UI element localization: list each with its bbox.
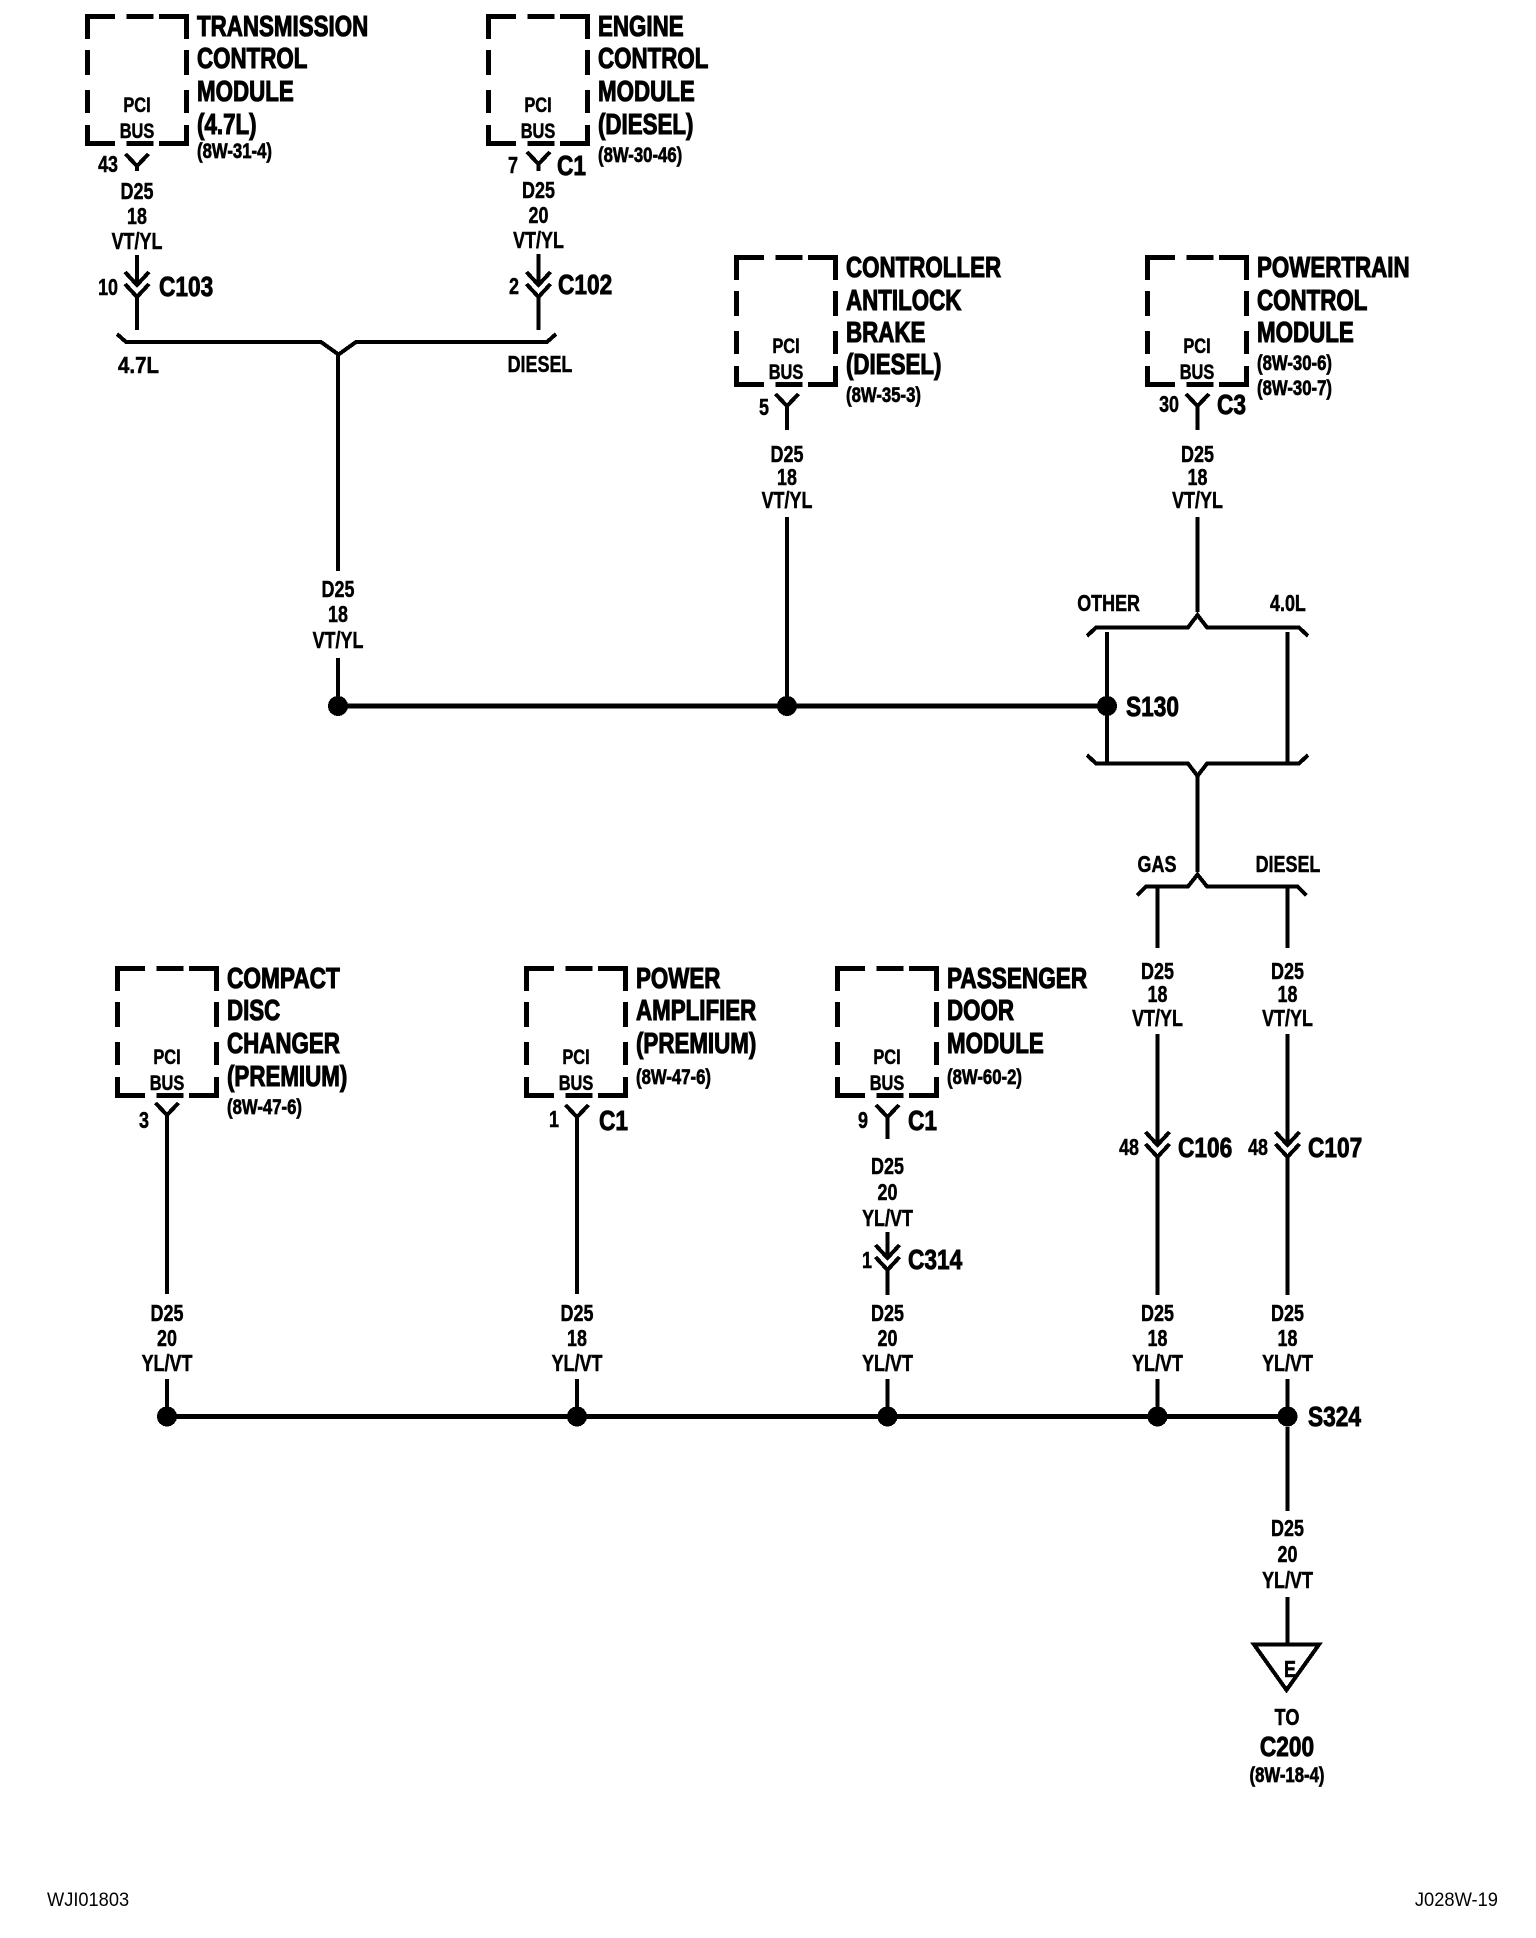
svg-text:VT/YL: VT/YL (1262, 1005, 1313, 1031)
svg-text:D25: D25 (561, 1300, 594, 1326)
svg-text:BUS: BUS (521, 120, 556, 143)
svg-text:C1: C1 (908, 1105, 937, 1136)
svg-text:C314: C314 (908, 1244, 963, 1275)
svg-text:3: 3 (139, 1107, 149, 1133)
svg-text:(PREMIUM): (PREMIUM) (636, 1028, 756, 1060)
svg-text:PCI: PCI (772, 335, 799, 358)
svg-text:C103: C103 (159, 271, 213, 302)
svg-text:COMPACT: COMPACT (227, 963, 340, 995)
svg-text:DIESEL: DIESEL (508, 351, 573, 377)
svg-text:POWERTRAIN: POWERTRAIN (1257, 252, 1410, 284)
svg-text:48: 48 (1119, 1134, 1139, 1160)
svg-text:BUS: BUS (769, 361, 804, 384)
svg-text:4.0L: 4.0L (1270, 590, 1306, 616)
svg-text:D25: D25 (322, 576, 355, 602)
svg-text:BUS: BUS (150, 1072, 185, 1095)
svg-text:(8W-47-6): (8W-47-6) (227, 1095, 302, 1119)
svg-text:CHANGER: CHANGER (227, 1028, 340, 1060)
svg-text:D25: D25 (1271, 1515, 1304, 1541)
svg-text:20: 20 (1278, 1541, 1298, 1567)
svg-text:GAS: GAS (1138, 851, 1177, 877)
svg-text:2: 2 (509, 273, 519, 299)
svg-text:1: 1 (862, 1247, 872, 1273)
svg-text:48: 48 (1248, 1134, 1268, 1160)
svg-text:10: 10 (98, 274, 118, 300)
svg-text:18: 18 (1278, 981, 1298, 1007)
svg-text:YL/VT: YL/VT (1132, 1350, 1183, 1376)
svg-text:YL/VT: YL/VT (1262, 1567, 1313, 1593)
svg-text:E: E (1284, 1656, 1296, 1682)
svg-text:CONTROL: CONTROL (598, 43, 708, 75)
svg-text:C1: C1 (557, 150, 586, 181)
svg-text:18: 18 (1148, 981, 1168, 1007)
svg-text:POWER: POWER (636, 963, 720, 995)
svg-text:ANTILOCK: ANTILOCK (846, 285, 961, 317)
svg-text:VT/YL: VT/YL (313, 627, 364, 653)
svg-text:MODULE: MODULE (1257, 317, 1354, 349)
svg-text:MODULE: MODULE (947, 1028, 1044, 1060)
svg-text:(DIESEL): (DIESEL) (598, 109, 694, 141)
svg-text:C106: C106 (1178, 1132, 1232, 1163)
svg-text:(4.7L): (4.7L) (197, 109, 257, 141)
svg-text:J028W-19: J028W-19 (1415, 1890, 1498, 1911)
svg-text:YL/VT: YL/VT (552, 1350, 603, 1376)
svg-text:D25: D25 (871, 1153, 904, 1179)
svg-text:D25: D25 (1141, 1300, 1174, 1326)
svg-text:TRANSMISSION: TRANSMISSION (197, 11, 368, 43)
svg-text:7: 7 (508, 152, 518, 178)
svg-text:BUS: BUS (1180, 361, 1215, 384)
svg-text:(8W-35-3): (8W-35-3) (846, 383, 921, 407)
svg-text:CONTROL: CONTROL (1257, 285, 1367, 317)
svg-text:18: 18 (1278, 1325, 1298, 1351)
svg-text:20: 20 (878, 1179, 898, 1205)
svg-text:D25: D25 (871, 1300, 904, 1326)
svg-text:YL/VT: YL/VT (1262, 1350, 1313, 1376)
svg-text:43: 43 (98, 151, 118, 177)
svg-text:(8W-18-4): (8W-18-4) (1250, 1763, 1325, 1787)
svg-text:YL/VT: YL/VT (862, 1205, 913, 1231)
svg-text:9: 9 (858, 1107, 868, 1133)
svg-text:YL/VT: YL/VT (862, 1350, 913, 1376)
svg-text:18: 18 (328, 601, 348, 627)
svg-text:(8W-30-46): (8W-30-46) (598, 143, 682, 167)
svg-text:18: 18 (127, 203, 147, 229)
svg-text:CONTROL: CONTROL (197, 43, 307, 75)
svg-text:PCI: PCI (524, 94, 551, 117)
svg-text:D25: D25 (121, 178, 154, 204)
svg-text:MODULE: MODULE (598, 76, 695, 108)
svg-text:PCI: PCI (873, 1046, 900, 1069)
svg-text:VT/YL: VT/YL (112, 228, 163, 254)
svg-text:PCI: PCI (562, 1046, 589, 1069)
svg-text:BUS: BUS (120, 120, 155, 143)
svg-text:18: 18 (1148, 1325, 1168, 1351)
svg-text:TO: TO (1275, 1704, 1300, 1730)
svg-text:PASSENGER: PASSENGER (947, 963, 1087, 995)
svg-text:PCI: PCI (153, 1046, 180, 1069)
svg-text:S130: S130 (1126, 691, 1179, 722)
svg-text:DIESEL: DIESEL (1256, 851, 1321, 877)
svg-text:D25: D25 (151, 1300, 184, 1326)
svg-text:(8W-60-2): (8W-60-2) (947, 1065, 1022, 1089)
svg-text:AMPLIFIER: AMPLIFIER (636, 995, 756, 1027)
svg-text:D25: D25 (1271, 1300, 1304, 1326)
svg-text:1: 1 (549, 1106, 559, 1132)
svg-text:C107: C107 (1308, 1132, 1362, 1163)
svg-text:D25: D25 (522, 177, 555, 203)
svg-text:4.7L: 4.7L (118, 352, 159, 378)
svg-text:(8W-30-7): (8W-30-7) (1257, 376, 1332, 400)
svg-text:OTHER: OTHER (1077, 590, 1140, 616)
svg-text:VT/YL: VT/YL (513, 227, 564, 253)
svg-text:(8W-47-6): (8W-47-6) (636, 1065, 711, 1089)
svg-text:DOOR: DOOR (947, 995, 1014, 1027)
svg-text:20: 20 (529, 202, 549, 228)
svg-text:S324: S324 (1308, 1401, 1361, 1432)
svg-text:C3: C3 (1217, 389, 1246, 420)
svg-text:5: 5 (759, 394, 769, 420)
svg-text:DISC: DISC (227, 995, 280, 1027)
svg-text:C102: C102 (558, 269, 612, 300)
svg-text:CONTROLLER: CONTROLLER (846, 252, 1001, 284)
svg-text:WJI01803: WJI01803 (47, 1890, 129, 1911)
svg-text:BRAKE: BRAKE (846, 317, 925, 349)
svg-text:PCI: PCI (1183, 335, 1210, 358)
svg-text:VT/YL: VT/YL (762, 487, 813, 513)
svg-text:YL/VT: YL/VT (142, 1350, 193, 1376)
svg-text:MODULE: MODULE (197, 76, 294, 108)
svg-text:18: 18 (567, 1325, 587, 1351)
svg-text:20: 20 (878, 1325, 898, 1351)
svg-text:VT/YL: VT/YL (1132, 1005, 1183, 1031)
svg-text:C200: C200 (1260, 1731, 1314, 1762)
svg-text:VT/YL: VT/YL (1172, 487, 1223, 513)
svg-text:(8W-30-6): (8W-30-6) (1257, 351, 1332, 375)
svg-text:(8W-31-4): (8W-31-4) (197, 139, 272, 163)
svg-text:C1: C1 (599, 1105, 628, 1136)
svg-text:(DIESEL): (DIESEL) (846, 349, 942, 381)
svg-text:PCI: PCI (123, 94, 150, 117)
svg-text:(PREMIUM): (PREMIUM) (227, 1061, 347, 1093)
svg-text:30: 30 (1159, 391, 1179, 417)
svg-text:BUS: BUS (559, 1072, 594, 1095)
svg-text:ENGINE: ENGINE (598, 11, 684, 43)
svg-text:20: 20 (157, 1325, 177, 1351)
svg-text:BUS: BUS (870, 1072, 905, 1095)
